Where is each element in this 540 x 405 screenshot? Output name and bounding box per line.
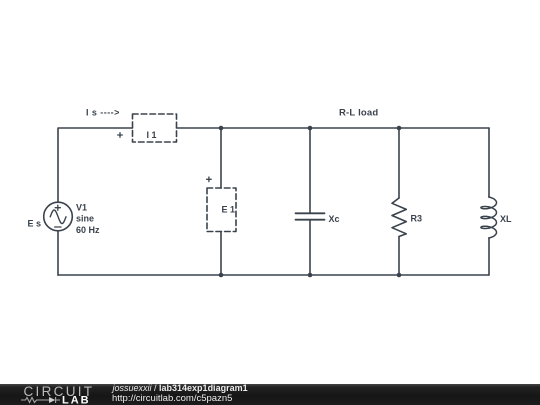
ammeter probe I1 (dashed box with + polarity and name) — [118, 114, 177, 142]
wire: E1 branch upper — [220, 128, 222, 188]
resistor R3 (zigzag) — [392, 198, 422, 237]
svg-text:sine: sine — [76, 214, 94, 224]
junction node: top rail / E1 — [219, 126, 224, 131]
wire: XL branch lower — [488, 238, 490, 275]
svg-text:E 1: E 1 — [222, 205, 236, 215]
svg-text:LAB: LAB — [62, 394, 91, 405]
svg-text:60 Hz: 60 Hz — [76, 225, 100, 235]
wire: bottom rail — [58, 274, 489, 276]
svg-text:R3: R3 — [411, 214, 423, 224]
svg-text:I s ---->: I s ----> — [86, 108, 120, 118]
svg-text:http://circuitlab.com/c5pazn5: http://circuitlab.com/c5pazn5 — [112, 393, 232, 404]
wire: XL branch upper — [488, 128, 490, 197]
wire: R3 branch upper — [398, 128, 400, 198]
junction node: bottom rail / Xc — [308, 273, 313, 278]
svg-text:Xc: Xc — [329, 214, 340, 224]
capacitor Xc — [296, 213, 340, 224]
svg-text:XL: XL — [500, 214, 512, 224]
wire: left column below source down to bottom rail — [57, 231, 59, 275]
svg-text:V1: V1 — [76, 202, 87, 212]
wire: top segment from I1 to right corner — [177, 127, 490, 129]
wire: Xc branch upper — [309, 128, 311, 213]
footer bar — [0, 384, 540, 405]
voltage source V1 (sine, 60 Hz), node label E s — [28, 202, 101, 235]
wire: top-left segment from source column to ammeter I1 — [58, 128, 133, 202]
svg-text:jossuexxii / lab314exp1diagram: jossuexxii / lab314exp1diagram1 — [112, 384, 248, 393]
CircuitLab logo schematic squiggle (resistor + diode) — [21, 397, 60, 403]
svg-text:E s: E s — [28, 219, 42, 229]
wire: Xc branch lower — [309, 220, 311, 275]
voltmeter probe E1 (dashed box with + polarity and name) — [207, 177, 236, 232]
svg-text:R-L load: R-L load — [339, 108, 378, 119]
svg-text:I 1: I 1 — [147, 130, 157, 140]
wire: R3 branch lower — [398, 237, 400, 276]
junction node: top rail / R3 — [397, 126, 402, 131]
junction node: top rail / Xc — [308, 126, 313, 131]
junction node: bottom rail / E1 — [219, 273, 224, 278]
wire: E1 branch lower — [220, 232, 222, 276]
inductor XL (coil) — [481, 197, 512, 238]
junction node: bottom rail / R3 — [397, 273, 402, 278]
